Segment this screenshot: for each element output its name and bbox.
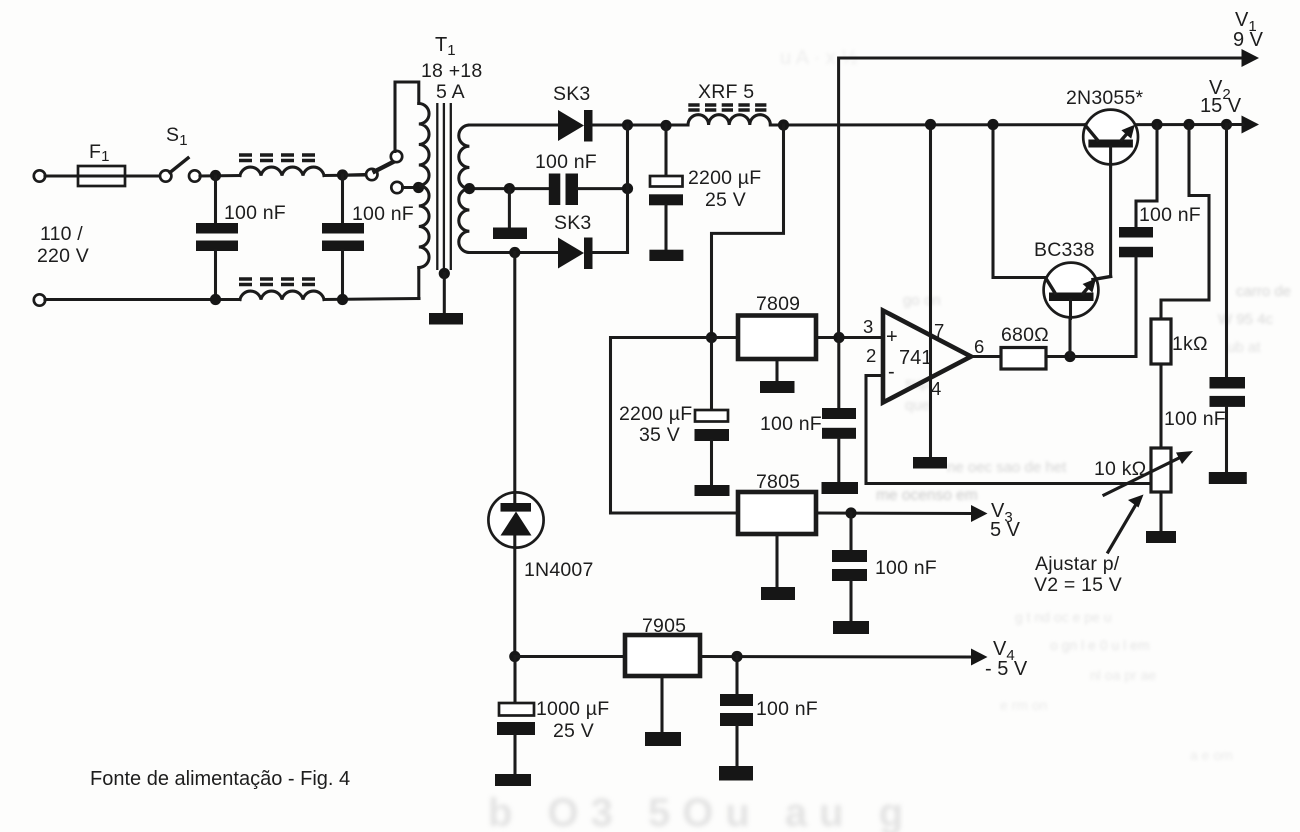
- svg-text:e rm on: e rm on: [1000, 697, 1047, 713]
- svg-text:go on: go on: [903, 292, 941, 309]
- svg-text:1000 µF: 1000 µF: [536, 698, 609, 720]
- svg-text:V2 = 15 V: V2 = 15 V: [1034, 574, 1122, 596]
- T1 primary winding: [419, 104, 429, 268]
- wire: [200, 174, 240, 178]
- svg-text:110 /: 110 /: [40, 223, 83, 245]
- svg-text:g t nd oc e pe u: g t nd oc e pe u: [1015, 609, 1112, 625]
- svg-text:100 nF: 100 nF: [875, 557, 937, 579]
- ground (100nF 7805): [833, 621, 869, 634]
- ground (741 pin4): [913, 457, 947, 469]
- switch S1: [160, 170, 171, 181]
- selector lever: [375, 161, 397, 172]
- node: [845, 507, 856, 518]
- svg-text:741: 741: [899, 347, 932, 369]
- node V1 takeoff: [833, 332, 844, 343]
- node after XRF5: [778, 119, 789, 130]
- svg-text:3: 3: [863, 316, 873, 337]
- node: [622, 119, 633, 130]
- wire pin2 from pot: [866, 376, 1151, 484]
- node: [622, 183, 633, 194]
- wire stubs inside 1N4007: [513, 493, 516, 502]
- T1 core: [436, 103, 438, 270]
- svg-text:o gn l e 0 u l em: o gn l e 0 u l em: [1050, 637, 1150, 653]
- capacitor 1000uF 25V: [513, 657, 516, 704]
- capacitor 100nF (7805 out): [849, 513, 852, 550]
- wire main V+ rail: [770, 123, 1243, 127]
- svg-text:carro de: carro de: [1236, 283, 1291, 300]
- terminal input bottom: [34, 294, 45, 305]
- wire tap: [403, 186, 419, 189]
- arrow V2: [1242, 116, 1260, 134]
- svg-text:me ocenso em: me ocenso em: [876, 487, 978, 504]
- ground (100nF 7905): [719, 766, 753, 781]
- node rail 1k takeoff: [1183, 119, 1194, 130]
- svg-text:18 +18: 18 +18: [421, 60, 482, 82]
- svg-text:2: 2: [866, 345, 876, 366]
- svg-text:100 nF: 100 nF: [756, 698, 818, 720]
- svg-text:100 nF: 100 nF: [352, 203, 414, 225]
- svg-text:220 V: 220 V: [37, 245, 89, 267]
- wire 7809 output: [816, 336, 883, 339]
- wire collector to rail: [993, 125, 1046, 278]
- ground (7905): [645, 732, 681, 746]
- node: [660, 120, 671, 131]
- tap terminal lower: [391, 182, 402, 193]
- node: [337, 294, 348, 305]
- capacitor 100 nF (across rectifier): [549, 174, 561, 206]
- svg-text:100 nF: 100 nF: [1164, 408, 1226, 430]
- node tap on winding: [413, 182, 424, 193]
- ground (2200uF 25V): [649, 250, 683, 261]
- regulator 7809: [738, 316, 816, 360]
- svg-text:100 nF: 100 nF: [535, 151, 597, 173]
- wire: [45, 174, 160, 177]
- wire + capacitor 100nF (transistor): [1136, 125, 1157, 228]
- svg-text:4: 4: [931, 378, 941, 399]
- ground (7809): [760, 381, 795, 393]
- wire base 2N3055: [1109, 147, 1112, 166]
- wire pot to ground: [1159, 492, 1162, 531]
- wire pin6 output: [971, 355, 1001, 358]
- switch selector pivot: [366, 169, 377, 180]
- svg-text:10 kΩ: 10 kΩ: [1094, 458, 1146, 480]
- svg-text:7809: 7809: [756, 293, 800, 315]
- ground (2200uF 35V): [695, 485, 730, 496]
- svg-text:6: 6: [974, 336, 984, 357]
- node: [731, 651, 742, 662]
- ground (100nF 7809): [822, 482, 859, 494]
- svg-text:1kΩ: 1kΩ: [1172, 333, 1208, 355]
- svg-text:25 V: 25 V: [553, 720, 594, 742]
- tap terminal upper: [391, 151, 402, 162]
- wire pin7 from rail: [929, 125, 932, 458]
- svg-text:Ajustar p/: Ajustar p/: [1035, 553, 1120, 575]
- wire V1 riser and top rail: [839, 58, 1244, 338]
- wire 7905 ground: [660, 676, 663, 732]
- svg-text:9 V: 9 V: [1233, 29, 1264, 51]
- node pin7 on rail: [925, 119, 936, 130]
- ground (center tap): [493, 228, 527, 240]
- node: [210, 294, 221, 305]
- op-amp U1 741: [883, 311, 971, 403]
- wire to 1k: [1161, 125, 1209, 320]
- wire: [593, 123, 689, 126]
- wire secondary bottom: [469, 251, 558, 254]
- wire vertical joining diode outputs: [626, 125, 629, 253]
- arrow annotation: [1108, 501, 1138, 552]
- resistor R1 680ohm: [1001, 348, 1046, 370]
- svg-text:100 nF: 100 nF: [760, 413, 822, 435]
- fuse F1: [78, 166, 125, 186]
- svg-text:XRF 5: XRF 5: [698, 81, 754, 103]
- svg-text:2200 µF: 2200 µF: [688, 167, 761, 189]
- wire 7805 ground: [775, 534, 778, 587]
- wire: [578, 187, 628, 190]
- svg-text:SK3: SK3: [554, 212, 591, 234]
- svg-text:-: -: [888, 361, 895, 383]
- wire emitter junction to 2N3055 base: [1109, 147, 1112, 277]
- wire bottom rail: [45, 298, 240, 301]
- node core ground: [439, 268, 450, 279]
- svg-text:b O3 5Ou au g: b O3 5Ou au g: [488, 791, 915, 832]
- node (to 1N4007): [509, 247, 520, 258]
- wire base: [1068, 299, 1071, 357]
- ground (1000uF): [495, 774, 531, 786]
- wire 7809 input: [611, 338, 739, 514]
- svg-text:15 V: 15 V: [1200, 95, 1242, 117]
- svg-text:1N4007: 1N4007: [524, 559, 594, 581]
- wire: [515, 655, 625, 658]
- wire top of primary: [395, 82, 419, 152]
- wire 7905 output: [700, 655, 973, 659]
- potentiometer 10k: [1151, 448, 1171, 492]
- transistor Q2 BC338: [1044, 263, 1099, 318]
- svg-text:2200 µF: 2200 µF: [619, 403, 692, 425]
- node tap: [464, 183, 475, 194]
- svg-text:25 V: 25 V: [705, 189, 746, 211]
- capacitor 2200uF 35V: [710, 338, 713, 411]
- capacitor 100nF (output): [1225, 125, 1228, 378]
- transistor Q1 2N3055: [1083, 110, 1138, 165]
- inductor XRF 5: [688, 115, 770, 125]
- ground (transformer core): [429, 313, 463, 325]
- svg-text:+: +: [886, 326, 898, 348]
- capacitor 100nF (7809 out): [837, 338, 840, 409]
- svg-text:BC338: BC338: [1034, 239, 1095, 261]
- capacitor 2200uF 25V: [664, 125, 667, 176]
- svg-text:que: que: [905, 397, 930, 414]
- capacitor 100nF (7905 out): [735, 657, 738, 695]
- svg-text:ub at: ub at: [1227, 339, 1261, 356]
- svg-text:SK3: SK3: [553, 83, 590, 105]
- svg-text:7805: 7805: [756, 471, 800, 493]
- capacitor C 100nF (right filter): [341, 175, 344, 223]
- wire secondary top: [469, 123, 558, 126]
- wire: [324, 299, 419, 300]
- wire to ground: [508, 189, 511, 228]
- arrow V1: [1242, 49, 1260, 67]
- terminal after switch: [189, 170, 200, 181]
- node: [337, 169, 348, 180]
- inductor filter bottom: [240, 291, 324, 299]
- node base BC338: [1064, 351, 1075, 362]
- arrow V4: [971, 649, 988, 666]
- node rail right cap takeoff: [1221, 119, 1232, 130]
- ground (7805): [761, 587, 795, 600]
- T1 secondary winding: [459, 125, 470, 253]
- ground (pot): [1146, 531, 1176, 543]
- svg-text:100 nF: 100 nF: [224, 202, 286, 224]
- node regulator input: [706, 332, 717, 343]
- svg-text:nl oa pr ae: nl oa pr ae: [1090, 667, 1156, 683]
- node collector on rail: [987, 119, 998, 130]
- node: [210, 170, 221, 181]
- inductor filter top: [240, 167, 324, 175]
- ground (output cap): [1209, 472, 1247, 484]
- wire jog down to regulators input: [712, 125, 784, 338]
- wire: [1159, 364, 1162, 448]
- diode D1 SK3 (top): [558, 110, 584, 141]
- regulator 7905: [625, 635, 700, 676]
- wire secondary mid tap: [469, 187, 549, 190]
- terminal input top: [34, 170, 45, 181]
- regulator 7805: [738, 492, 816, 534]
- wire BC338 base stub: [1069, 300, 1072, 319]
- svg-text:100 nF: 100 nF: [1139, 204, 1201, 226]
- wire: [1046, 355, 1070, 358]
- svg-text:35 V: 35 V: [639, 424, 680, 446]
- node rail right of 2N3055: [1151, 119, 1162, 130]
- wire 7805 output: [816, 511, 973, 515]
- svg-text:2N3055*: 2N3055*: [1066, 87, 1144, 109]
- wire: [443, 274, 446, 314]
- node 7905 input: [509, 651, 520, 662]
- arrow V3: [971, 505, 988, 522]
- svg-text:Fonte de alimentação - Fig. 4: Fonte de alimentação - Fig. 4: [90, 768, 350, 790]
- capacitor C 100nF (left filter): [214, 176, 217, 223]
- svg-text:5 A: 5 A: [436, 81, 465, 103]
- svg-text:5 V: 5 V: [990, 519, 1021, 541]
- svg-text:a e om: a e om: [1190, 747, 1233, 763]
- wire: [324, 173, 367, 177]
- node: [504, 183, 515, 194]
- diode D3 1N4007: [488, 492, 543, 547]
- wire: [593, 251, 628, 254]
- wire from rectifier bottom to 1N4007: [513, 253, 516, 657]
- svg-text:ne oec sao de het: ne oec sao de het: [947, 459, 1067, 476]
- diode D2 SK3 (bottom): [558, 238, 584, 269]
- svg-text:680Ω: 680Ω: [1001, 324, 1049, 346]
- svg-text:- 5 V: - 5 V: [985, 658, 1028, 680]
- wire 7809 ground lead: [775, 359, 778, 381]
- svg-text:7: 7: [934, 320, 944, 341]
- resistor R2 1k: [1151, 319, 1171, 364]
- wire to selector: [347, 173, 366, 177]
- svg-text:7905: 7905: [642, 615, 686, 637]
